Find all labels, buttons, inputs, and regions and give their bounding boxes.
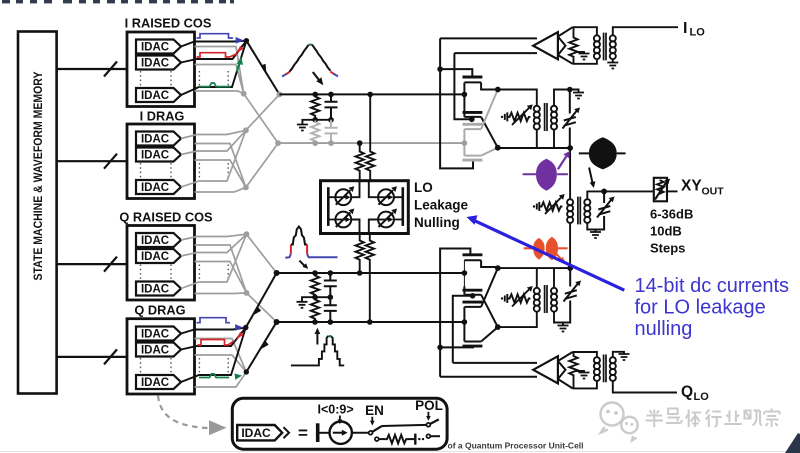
fan I raised cos black wires: [181, 41, 246, 95]
RC-Q mid wire + ground: [302, 297, 330, 302]
fan I raised cos gray wires: [195, 47, 244, 94]
wire I+ line: [279, 93, 464, 95]
svg-text:POL: POL: [415, 398, 443, 413]
arrow below black packet: [589, 168, 592, 183]
node Q raised cos N: [244, 290, 250, 296]
svg-text:Steps: Steps: [650, 241, 685, 256]
resistor RC-Q upper: [311, 274, 319, 297]
svg-text:Q: Q: [681, 384, 693, 401]
I tank wires: [498, 90, 579, 149]
svg-text:nulling: nulling: [635, 318, 693, 340]
Q LO balun wires: [569, 352, 597, 388]
I LO amp triangle: [533, 32, 558, 59]
svg-text:LO: LO: [414, 180, 433, 195]
LO null feed resistor top-left (from I- gray line): [356, 143, 364, 181]
blue step waveform Q drag: [197, 318, 231, 323]
svg-text:Q RAISED COS: Q RAISED COS: [119, 210, 213, 225]
EN switch lever: [372, 426, 382, 432]
I raised-cosine pulse sketch: [282, 45, 338, 77]
bus wire 1: [57, 62, 127, 77]
corner page mark: [785, 433, 800, 453]
I tank transformer: [534, 103, 557, 131]
svg-text:Leakage: Leakage: [414, 198, 469, 213]
fan Q drag gray wires: [195, 339, 247, 388]
fan I drag gray wires: [181, 94, 279, 192]
svg-text:for LO leakage: for LO leakage: [635, 297, 766, 319]
node Q mixer out-: [495, 324, 501, 330]
purple wave packet: [523, 173, 568, 175]
green step waveform: [199, 83, 231, 87]
transistor M6 (Q mixer): [463, 286, 498, 327]
LO null feed resistor bottom-left (to Q+ line): [356, 234, 364, 274]
LO null feed resistor top-right (from I+ line): [366, 94, 374, 180]
svg-text:10dB: 10dB: [650, 224, 682, 239]
wire EN to POL: [382, 425, 427, 426]
svg-text:I: I: [683, 20, 687, 37]
svg-text:=: =: [298, 424, 308, 443]
dashed arrow to IDAC definition: [158, 396, 208, 429]
svg-text:I<0:9>: I<0:9>: [318, 403, 354, 417]
blue annotation arrow: [474, 220, 625, 290]
orange double pulse: [524, 247, 568, 249]
node Q mixer out+: [495, 265, 501, 271]
XY summing rail: [569, 148, 571, 268]
capacitor RC-Q upper: [324, 273, 337, 297]
svg-text:XY: XY: [681, 178, 702, 195]
arrow at I pulse: [313, 72, 320, 81]
Q raised-cosine pulse sketch: [285, 227, 337, 258]
arrow at Q drag pulse: [316, 333, 318, 345]
svg-text:LO: LO: [694, 391, 710, 403]
dc source 2: [378, 186, 397, 205]
node I-: [275, 140, 281, 146]
transistor M2 (I mixer, LO-): [463, 108, 498, 147]
group box I RAISED COS: [125, 16, 229, 107]
svg-text:I DRAG: I DRAG: [140, 109, 185, 124]
fan Q drag black wires: [181, 328, 246, 383]
IDAC pentagon symbol: [237, 425, 289, 440]
Q tank wires: [498, 268, 570, 327]
transistor M4 gray (I mixer): [463, 146, 498, 161]
Q drag pulse sketch: [291, 336, 344, 366]
node I raised cos P: [244, 38, 249, 43]
node Q drag P: [243, 325, 248, 330]
Q tank transformer: [534, 285, 557, 313]
transistor M3 gray (I mixer): [463, 90, 498, 146]
svg-text:I RAISED COS: I RAISED COS: [125, 16, 212, 31]
node I raised cos N: [241, 91, 247, 97]
group box Q RAISED COS: [119, 210, 228, 301]
red step waveform: [197, 53, 238, 57]
XY varactor: [596, 191, 612, 229]
current source circle: [330, 422, 352, 444]
bus wire 3: [57, 257, 127, 272]
I LO fork: [558, 27, 573, 64]
red step waveform Q drag: [198, 340, 235, 346]
svg-text:of a Quantum Processor Unit-Ce: of a Quantum Processor Unit-Cell: [448, 441, 584, 451]
transistor M1 (I mixer, LO+): [463, 77, 498, 108]
capacitor RC-I upper: [325, 94, 338, 119]
resistor RC-I lower gray: [311, 121, 319, 144]
wire Q- line: [277, 321, 465, 323]
LO feed vertical 1 (Q mixer): [440, 249, 473, 377]
output transformer: [567, 197, 590, 225]
LO null feed resistor bottom-right (to Q- line): [366, 234, 374, 323]
transistor M8 (Q mixer): [463, 327, 498, 346]
wire Q+ line: [277, 272, 465, 274]
svg-text:Q DRAG: Q DRAG: [134, 303, 185, 318]
LO feed vertical 1 (I mixer): [440, 38, 473, 168]
center verticals top: [351, 181, 378, 198]
black wave packet: [579, 152, 626, 154]
right bar: [401, 187, 404, 226]
Q tank variable resistor: [501, 290, 531, 307]
I tank varactor: [563, 90, 577, 149]
group box I DRAG: [127, 109, 228, 199]
transistor M7 (Q mixer): [463, 268, 498, 341]
left bar: [327, 187, 330, 226]
node I drag P: [243, 127, 249, 133]
node Q drag N: [244, 369, 249, 374]
I tank variable resistor: [501, 108, 531, 125]
center verticals bottom: [351, 220, 378, 234]
node I drag N: [243, 185, 249, 191]
arrow at Q pulse: [299, 261, 304, 266]
bus wire 2: [57, 154, 127, 169]
node I mixer out+: [495, 87, 501, 93]
node I+: [277, 92, 283, 98]
group box Q DRAG: [127, 303, 228, 394]
bottom hairline: [0, 451, 800, 453]
wire diag QDRAG P to Q+: [246, 273, 277, 372]
svg-text:Nulling: Nulling: [414, 215, 460, 230]
current source bar: [316, 423, 320, 442]
resistor RC-I upper: [311, 95, 319, 120]
output transformer variable resistor: [533, 198, 563, 215]
I LO amp lines: [440, 38, 537, 53]
watermark text: [646, 409, 780, 428]
svg-text:LO: LO: [690, 27, 706, 39]
Q tank varactor: [563, 268, 578, 322]
I LO transformer: [594, 27, 678, 62]
attenuator: [654, 178, 667, 202]
wire I- line gray: [278, 142, 464, 144]
svg-text:14-bit dc currents: 14-bit dc currents: [635, 275, 790, 297]
wire diag IRC N to I-: [244, 94, 278, 143]
svg-text:STATE MACHINE & WAVEFORM MEMOR: STATE MACHINE & WAVEFORM MEMORY: [31, 72, 45, 281]
stubs to bars: [328, 197, 403, 219]
RC-I mid wire + ground: [302, 120, 331, 125]
XY output line: [587, 191, 654, 232]
small orange arrow: [556, 254, 562, 260]
capacitor RC-I lower gray: [325, 120, 338, 143]
node Q raised cos P: [244, 231, 250, 237]
dc source 4: [378, 209, 397, 228]
state machine box: [18, 32, 57, 394]
dc source 1: [335, 186, 354, 205]
blue step waveform: [197, 34, 234, 38]
I LO balun wires: [569, 27, 597, 64]
svg-text:OUT: OUT: [702, 186, 725, 198]
capacitor RC-Q lower: [324, 297, 337, 322]
fan Q raised cos gray wires: [181, 234, 277, 322]
svg-text:IDAC: IDAC: [241, 426, 271, 440]
bus wire 4: [57, 349, 127, 364]
svg-text:EN: EN: [365, 403, 384, 418]
watermark icon: [601, 403, 638, 441]
green step waveform Q drag: [199, 374, 229, 378]
svg-text:6-36dB: 6-36dB: [650, 207, 693, 222]
purple arrow: [558, 156, 566, 169]
transistor M5 (Q mixer): [463, 255, 498, 286]
Q LO amp triangle: [533, 356, 558, 383]
POL switch: [427, 423, 431, 427]
resistor RC-Q lower: [311, 298, 319, 322]
IDAC definition box: [232, 398, 447, 449]
Q LO transformer: [594, 352, 677, 393]
LO leakage nulling box: [321, 181, 409, 234]
dc source 3: [335, 209, 354, 228]
wire diag IRC P to I+: [246, 41, 279, 95]
Q LO fork: [558, 352, 573, 388]
node I mixer out-: [495, 145, 501, 151]
Q LO amp lines: [440, 363, 537, 377]
lower branch resistor: [375, 437, 379, 441]
wire to EN switch: [352, 432, 369, 434]
title fragment (cut off at top): [2, 0, 234, 3]
